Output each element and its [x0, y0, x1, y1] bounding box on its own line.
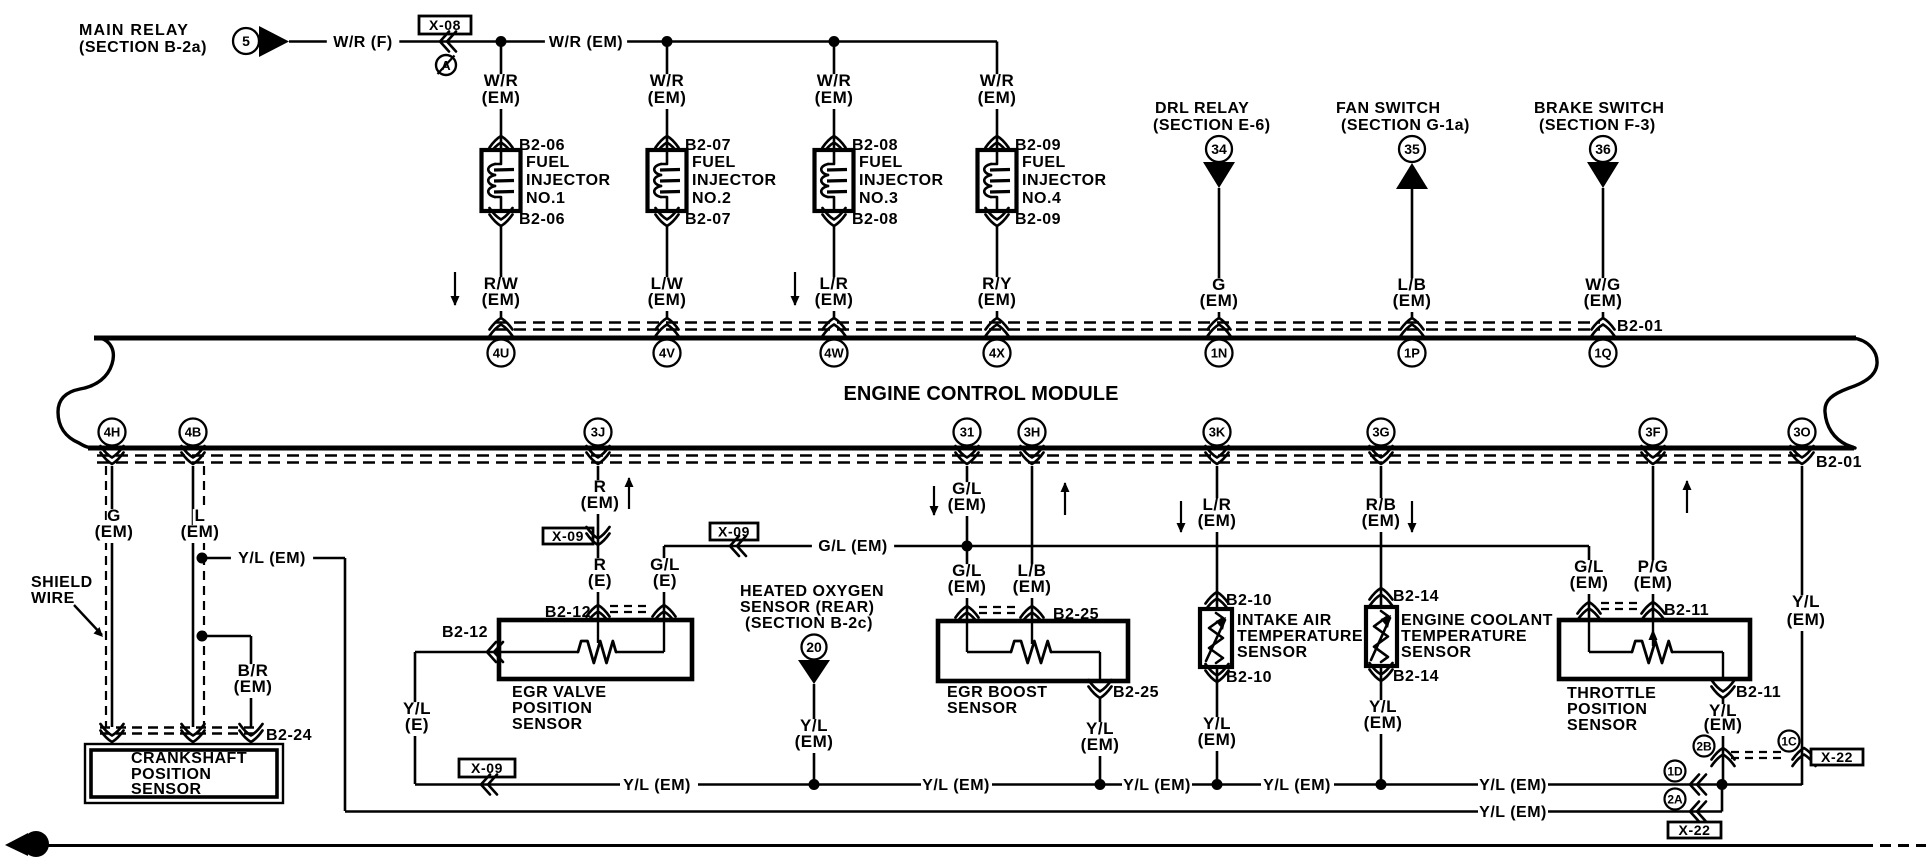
- svg-text:B2-08: B2-08: [852, 211, 898, 228]
- svg-text:(SECTION F-3): (SECTION F-3): [1539, 117, 1656, 134]
- svg-text:W/R (EM): W/R (EM): [549, 34, 623, 51]
- svg-text:(EM): (EM): [795, 732, 834, 751]
- svg-text:Y/L (EM): Y/L (EM): [1479, 804, 1547, 821]
- svg-text:HEATED OXYGEN: HEATED OXYGEN: [740, 583, 884, 600]
- svg-text:FAN SWITCH: FAN SWITCH: [1336, 100, 1441, 117]
- svg-text:X-22: X-22: [1679, 822, 1711, 838]
- svg-text:INTAKE AIR: INTAKE AIR: [1237, 612, 1332, 629]
- svg-text:(SECTION B-2a): (SECTION B-2a): [79, 39, 207, 56]
- svg-text:Y/L (EM): Y/L (EM): [1263, 777, 1331, 794]
- svg-text:NO.4: NO.4: [1022, 190, 1061, 207]
- svg-text:(EM): (EM): [1198, 511, 1237, 530]
- svg-text:B2-06: B2-06: [519, 211, 565, 228]
- svg-text:TEMPERATURE: TEMPERATURE: [1401, 628, 1527, 645]
- svg-text:INJECTOR: INJECTOR: [526, 172, 611, 189]
- svg-text:(E): (E): [405, 715, 429, 734]
- svg-text:B2-01: B2-01: [1816, 454, 1862, 471]
- svg-text:BRAKE SWITCH: BRAKE SWITCH: [1534, 100, 1664, 117]
- svg-text:4H: 4H: [104, 425, 121, 440]
- svg-text:B2-12: B2-12: [442, 624, 488, 641]
- svg-text:SENSOR: SENSOR: [131, 781, 202, 798]
- svg-text:1C: 1C: [1781, 734, 1797, 748]
- svg-text:FUEL: FUEL: [1022, 154, 1066, 171]
- svg-text:5: 5: [242, 33, 250, 49]
- svg-text:SENSOR: SENSOR: [1237, 644, 1308, 661]
- svg-text:POSITION: POSITION: [512, 700, 592, 717]
- svg-text:B2-09: B2-09: [1015, 211, 1061, 228]
- svg-text:(EM): (EM): [1634, 573, 1673, 592]
- svg-text:4W: 4W: [824, 346, 844, 361]
- svg-text:(EM): (EM): [482, 290, 521, 309]
- svg-text:3O: 3O: [1793, 425, 1810, 440]
- svg-text:2B: 2B: [1696, 739, 1712, 753]
- svg-text:(EM): (EM): [978, 290, 1017, 309]
- svg-text:B2-09: B2-09: [1015, 137, 1061, 154]
- svg-text:FUEL: FUEL: [692, 154, 736, 171]
- svg-text:(EM): (EM): [1364, 713, 1403, 732]
- svg-text:EGR VALVE: EGR VALVE: [512, 684, 607, 701]
- svg-text:INJECTOR: INJECTOR: [1022, 172, 1107, 189]
- svg-text:Y/L (EM): Y/L (EM): [623, 777, 691, 794]
- svg-text:SHIELD: SHIELD: [31, 574, 93, 591]
- svg-text:4X: 4X: [989, 346, 1005, 361]
- svg-text:FUEL: FUEL: [859, 154, 903, 171]
- svg-text:SENSOR: SENSOR: [512, 716, 583, 733]
- svg-text:(EM): (EM): [234, 677, 273, 696]
- svg-text:B2-01: B2-01: [1617, 318, 1663, 335]
- svg-text:MAIN RELAY: MAIN RELAY: [79, 22, 189, 39]
- svg-text:WIRE: WIRE: [31, 590, 75, 607]
- svg-text:(SECTION B-2c): (SECTION B-2c): [745, 615, 873, 632]
- svg-text:X-22: X-22: [1821, 749, 1853, 765]
- svg-text:(EM): (EM): [815, 88, 854, 107]
- svg-text:3K: 3K: [1209, 425, 1226, 440]
- svg-text:1D: 1D: [1667, 764, 1683, 778]
- svg-text:3G: 3G: [1372, 425, 1389, 440]
- svg-text:B2-14: B2-14: [1393, 668, 1439, 685]
- svg-text:THROTTLE: THROTTLE: [1567, 685, 1656, 702]
- svg-text:SENSOR (REAR): SENSOR (REAR): [740, 599, 875, 616]
- svg-text:(EM): (EM): [1787, 610, 1826, 629]
- svg-text:(EM): (EM): [1584, 291, 1623, 310]
- svg-text:3J: 3J: [591, 425, 605, 440]
- svg-text:FUEL: FUEL: [526, 154, 570, 171]
- svg-text:(EM): (EM): [648, 88, 687, 107]
- svg-text:(E): (E): [653, 571, 677, 590]
- svg-text:2A: 2A: [1667, 792, 1683, 806]
- svg-text:(EM): (EM): [948, 577, 987, 596]
- svg-text:(EM): (EM): [948, 495, 987, 514]
- svg-text:Y/L (EM): Y/L (EM): [238, 550, 306, 567]
- svg-text:4U: 4U: [493, 346, 510, 361]
- svg-text:B2-10: B2-10: [1226, 669, 1272, 686]
- svg-text:(EM): (EM): [1081, 735, 1120, 754]
- svg-text:B2-25: B2-25: [1113, 684, 1159, 701]
- svg-text:(EM): (EM): [181, 522, 220, 541]
- svg-text:TEMPERATURE: TEMPERATURE: [1237, 628, 1363, 645]
- svg-text:(EM): (EM): [95, 522, 134, 541]
- svg-text:1Q: 1Q: [1594, 346, 1611, 361]
- svg-text:(EM): (EM): [1570, 573, 1609, 592]
- svg-text:20: 20: [806, 639, 822, 655]
- svg-text:(EM): (EM): [1200, 291, 1239, 310]
- svg-text:(EM): (EM): [482, 88, 521, 107]
- svg-text:(EM): (EM): [581, 493, 620, 512]
- svg-text:(EM): (EM): [815, 290, 854, 309]
- svg-text:SENSOR: SENSOR: [1401, 644, 1472, 661]
- svg-text:B2-10: B2-10: [1226, 592, 1272, 609]
- svg-text:(EM): (EM): [1198, 730, 1237, 749]
- svg-text:Y/L: Y/L: [1792, 592, 1820, 611]
- svg-text:B2-08: B2-08: [852, 137, 898, 154]
- svg-text:B2-11: B2-11: [1736, 684, 1781, 701]
- svg-text:Y/L (EM): Y/L (EM): [1123, 777, 1191, 794]
- svg-text:POSITION: POSITION: [1567, 701, 1647, 718]
- svg-text:X-09: X-09: [552, 528, 584, 544]
- svg-text:W/R (F): W/R (F): [333, 34, 392, 51]
- svg-text:NO.1: NO.1: [526, 190, 565, 207]
- svg-text:36: 36: [1595, 141, 1611, 157]
- svg-text:SENSOR: SENSOR: [947, 700, 1018, 717]
- svg-text:(E): (E): [588, 571, 612, 590]
- svg-text:(EM): (EM): [1013, 577, 1052, 596]
- svg-text:4V: 4V: [659, 346, 675, 361]
- svg-text:3H: 3H: [1024, 425, 1041, 440]
- svg-text:31: 31: [960, 425, 974, 440]
- svg-text:Y/L (EM): Y/L (EM): [922, 777, 990, 794]
- svg-text:(SECTION G-1a): (SECTION G-1a): [1341, 117, 1470, 134]
- svg-text:B2-06: B2-06: [519, 137, 565, 154]
- svg-text:NO.2: NO.2: [692, 190, 731, 207]
- svg-text:(EM): (EM): [1362, 511, 1401, 530]
- svg-text:(SECTION E-6): (SECTION E-6): [1153, 117, 1271, 134]
- svg-text:INJECTOR: INJECTOR: [859, 172, 944, 189]
- svg-text:35: 35: [1404, 141, 1420, 157]
- svg-text:1N: 1N: [1211, 346, 1228, 361]
- svg-text:4B: 4B: [185, 425, 202, 440]
- svg-text:Y/L (EM): Y/L (EM): [1479, 777, 1547, 794]
- svg-text:3F: 3F: [1645, 425, 1660, 440]
- svg-text:EGR BOOST: EGR BOOST: [947, 684, 1048, 701]
- svg-text:(EM): (EM): [1704, 715, 1743, 734]
- svg-text:(EM): (EM): [978, 88, 1017, 107]
- svg-text:ENGINE CONTROL MODULE: ENGINE CONTROL MODULE: [843, 383, 1118, 405]
- svg-text:ENGINE COOLANT: ENGINE COOLANT: [1401, 612, 1553, 629]
- svg-text:X-09: X-09: [471, 760, 503, 776]
- svg-text:G/L (EM): G/L (EM): [818, 538, 887, 555]
- svg-text:G: G: [30, 837, 42, 854]
- svg-text:B2-11: B2-11: [1664, 602, 1709, 619]
- svg-text:(EM): (EM): [648, 290, 687, 309]
- svg-text:B2-24: B2-24: [266, 727, 312, 744]
- svg-text:SENSOR: SENSOR: [1567, 717, 1638, 734]
- svg-text:1P: 1P: [1404, 346, 1420, 361]
- svg-text:INJECTOR: INJECTOR: [692, 172, 777, 189]
- svg-text:DRL RELAY: DRL RELAY: [1155, 100, 1249, 117]
- svg-text:NO.3: NO.3: [859, 190, 898, 207]
- svg-text:(EM): (EM): [1393, 291, 1432, 310]
- svg-text:CRANKSHAFT: CRANKSHAFT: [131, 750, 247, 767]
- svg-text:B2-07: B2-07: [685, 211, 731, 228]
- svg-text:B2-14: B2-14: [1393, 588, 1439, 605]
- svg-text:34: 34: [1211, 141, 1227, 157]
- svg-text:B2-07: B2-07: [685, 137, 731, 154]
